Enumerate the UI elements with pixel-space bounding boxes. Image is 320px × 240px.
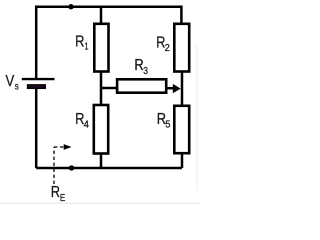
svg-text:R: R <box>134 57 143 74</box>
svg-text:E: E <box>60 192 65 204</box>
svg-text:V: V <box>6 73 15 90</box>
svg-text:4: 4 <box>84 119 89 131</box>
svg-text:R: R <box>75 33 84 50</box>
svg-text:1: 1 <box>85 41 89 53</box>
svg-text:s: s <box>15 81 19 93</box>
svg-text:5: 5 <box>165 118 170 130</box>
svg-text:3: 3 <box>143 65 148 77</box>
svg-text:2: 2 <box>165 42 170 54</box>
svg-text:R: R <box>51 184 60 201</box>
